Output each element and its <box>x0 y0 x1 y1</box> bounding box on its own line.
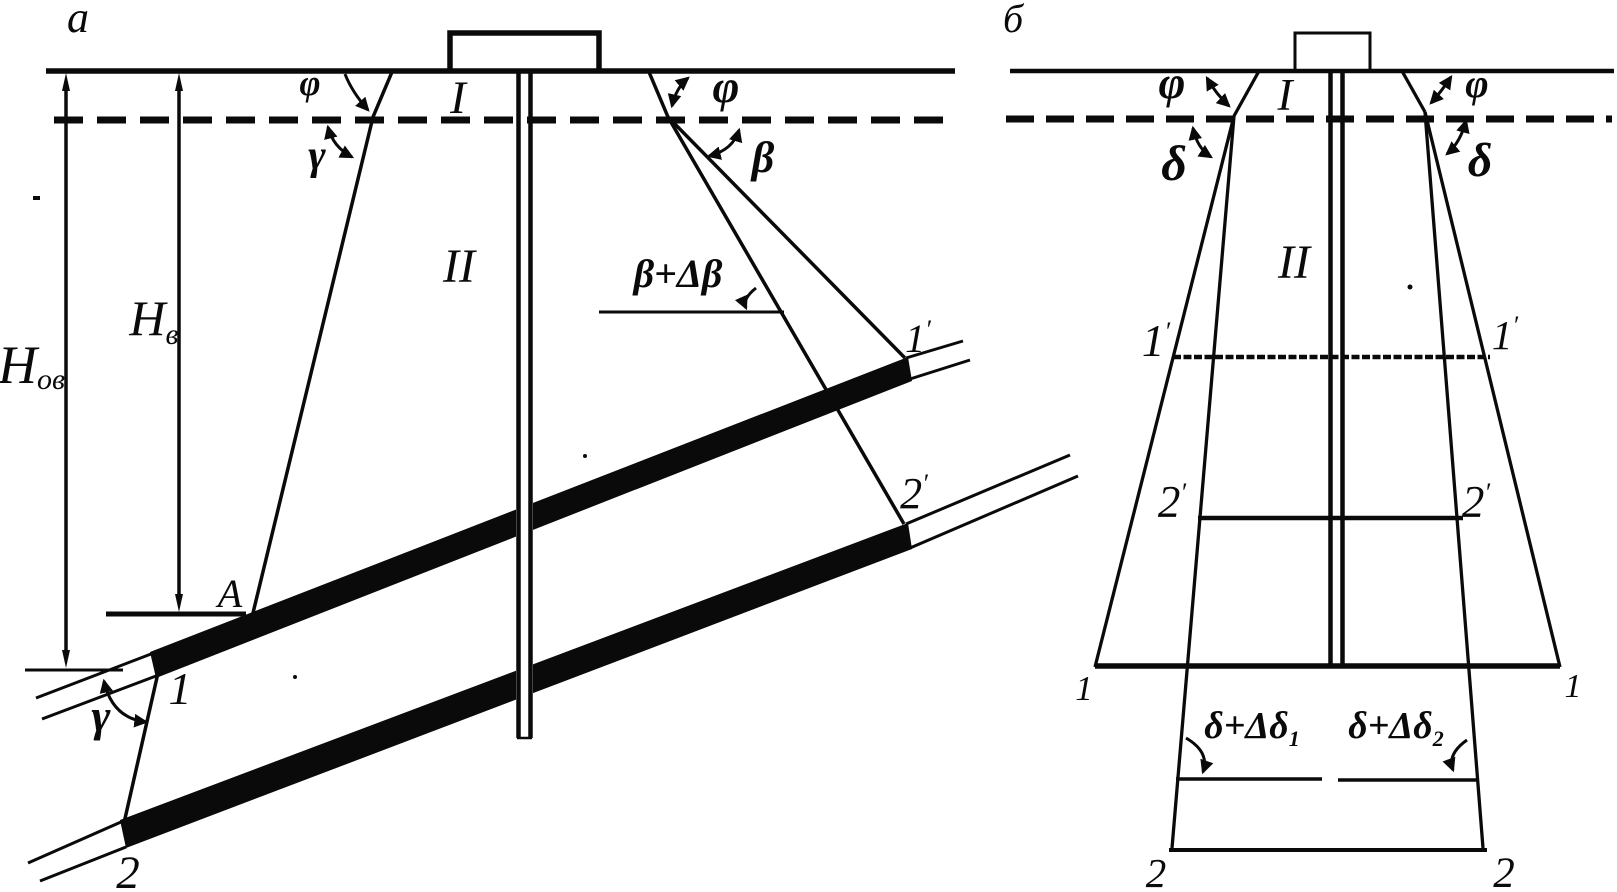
svg-text:δ+Δδ1: δ+Δδ1 <box>1204 705 1299 751</box>
svg-text:Нов: Нов <box>0 335 65 396</box>
svg-text:γ: γ <box>308 133 326 179</box>
svg-text:Нв: Нв <box>128 290 178 351</box>
svg-text:б: б <box>1003 0 1025 41</box>
svg-text:II: II <box>442 240 477 293</box>
svg-text:φ: φ <box>299 63 320 103</box>
svg-text:I: I <box>449 72 468 124</box>
svg-text:II: II <box>1277 236 1312 289</box>
svg-text:φ: φ <box>1159 57 1186 108</box>
svg-text:β: β <box>750 133 775 182</box>
svg-text:2′: 2′ <box>1462 477 1491 527</box>
svg-text:I: I <box>1277 70 1295 120</box>
svg-text:β+Δβ: β+Δβ <box>632 251 723 296</box>
svg-text:1: 1 <box>169 663 192 714</box>
svg-text:А: А <box>215 571 243 616</box>
svg-text:2: 2 <box>1493 850 1515 892</box>
svg-text:φ: φ <box>1465 61 1488 106</box>
svg-text:φ: φ <box>713 61 740 112</box>
svg-text:2: 2 <box>116 847 140 892</box>
svg-text:2: 2 <box>1146 850 1167 892</box>
svg-text:2′: 2′ <box>900 469 928 518</box>
svg-text:1′: 1′ <box>905 315 931 361</box>
svg-text:2′: 2′ <box>1158 477 1187 527</box>
svg-text:1′: 1′ <box>1492 311 1519 358</box>
svg-text:1: 1 <box>1565 668 1582 705</box>
svg-text:γ: γ <box>91 690 111 741</box>
svg-text:δ: δ <box>1468 134 1493 187</box>
svg-text:δ+Δδ2: δ+Δδ2 <box>1348 705 1443 751</box>
svg-text:1′: 1′ <box>1142 316 1171 366</box>
svg-text:1: 1 <box>1075 669 1093 708</box>
svg-text:δ: δ <box>1161 135 1187 191</box>
svg-text:а: а <box>67 0 89 42</box>
